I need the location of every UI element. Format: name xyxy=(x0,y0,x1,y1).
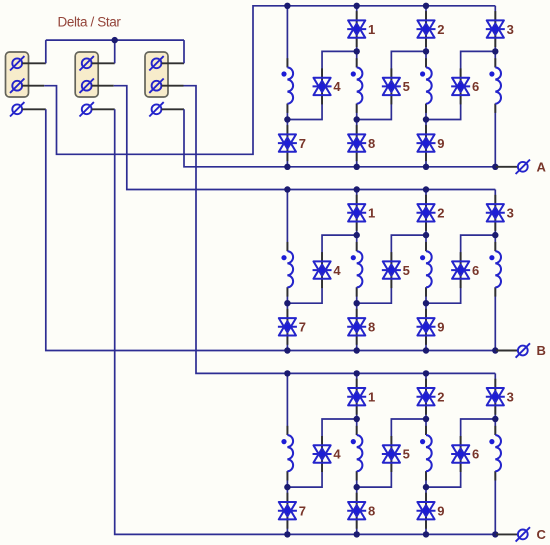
pin thyristor 4 group B xyxy=(321,252,323,288)
wire TR2.1 riser xyxy=(114,40,116,63)
thyristor 7 (group C) xyxy=(278,502,297,519)
wire thyristor 6 branch group C xyxy=(426,419,495,487)
node group A bottom bus col1 xyxy=(284,164,290,170)
phase terminal P2 (loose) xyxy=(80,102,94,116)
label 7 group B xyxy=(299,320,306,335)
label 8 group C xyxy=(368,503,375,518)
node group B junction2 col1 xyxy=(284,300,290,306)
svg-text:2: 2 xyxy=(437,22,444,37)
wire thyristor 4 branch group B xyxy=(287,235,356,303)
label 6 group C xyxy=(472,447,479,462)
wire group B rail 4 upper xyxy=(494,190,496,252)
svg-text:7: 7 xyxy=(299,503,306,518)
thyristor 3 (group B) xyxy=(486,204,505,221)
pin thyristor 3 group C xyxy=(494,379,496,415)
node group C top bus col3 xyxy=(423,370,429,376)
wire group B rail 2 upper xyxy=(356,190,358,252)
node group B junction1 col3 xyxy=(423,232,429,238)
thyristor 4 (group A) xyxy=(313,78,332,95)
inductor L4 (group B) xyxy=(489,251,501,287)
pin inductor L4 group A xyxy=(494,58,496,113)
svg-text:4: 4 xyxy=(333,79,341,94)
inductor L3 (group B) xyxy=(420,251,432,287)
pin TR2.1 xyxy=(92,62,115,64)
pin inductor L1 group C xyxy=(286,426,288,481)
pin inductor L3 group C xyxy=(425,426,427,481)
wire group A rail 1 upper xyxy=(286,6,288,68)
node group C junction2 col2 xyxy=(354,484,360,490)
thyristor 5 (group C) xyxy=(382,445,401,462)
inductor L3 (group C) xyxy=(420,435,432,471)
node group B bottom bus col1 xyxy=(284,347,290,353)
pin thyristor 6 group A xyxy=(460,68,462,104)
pin inductor L1 group B xyxy=(286,242,288,297)
transformer box TR2 xyxy=(75,52,98,97)
svg-text:7: 7 xyxy=(299,136,306,151)
svg-text:7: 7 xyxy=(299,320,306,335)
node group C junction1 col3 xyxy=(423,416,429,422)
svg-text:8: 8 xyxy=(368,320,375,335)
wire TR3.1 riser xyxy=(183,40,185,63)
phase terminal output B xyxy=(516,343,530,357)
node group A junction1 col4 xyxy=(492,48,498,54)
svg-text:9: 9 xyxy=(437,136,444,151)
label 2 group B xyxy=(437,206,444,221)
label A xyxy=(537,160,547,175)
svg-text:9: 9 xyxy=(437,503,444,518)
pin TR2.2 xyxy=(92,85,114,87)
pin thyristor 6 group B xyxy=(460,252,462,288)
wire group B rail 1 lower xyxy=(286,287,288,350)
wire group A rail 3 lower xyxy=(425,104,427,167)
wire group B rail 2 lower xyxy=(356,287,358,350)
thyristor 6 (group B) xyxy=(451,261,470,278)
wire TR3.2 to group C top bus xyxy=(184,86,496,374)
phase terminal TR1 pin 1 xyxy=(10,56,24,70)
pin thyristor 2 group B xyxy=(425,195,427,231)
node group B top bus col1 xyxy=(284,186,290,192)
node group B junction1 col4 xyxy=(492,232,498,238)
label C xyxy=(537,527,547,542)
label 5 group B xyxy=(403,263,410,278)
label 9 group C xyxy=(437,503,444,518)
thyristor 7 (group B) xyxy=(278,318,297,335)
wire group C rail 1 upper xyxy=(286,373,288,435)
label 1 group A xyxy=(368,22,375,37)
label 2 group C xyxy=(437,389,444,404)
svg-text:5: 5 xyxy=(403,79,410,94)
wire TR2.2 to group B top bus xyxy=(114,86,496,190)
svg-text:8: 8 xyxy=(368,503,375,518)
svg-text:6: 6 xyxy=(472,447,479,462)
thyristor 7 (group A) xyxy=(278,134,297,151)
label B xyxy=(537,343,546,358)
thyristor 6 (group C) xyxy=(451,445,470,462)
thyristor 1 (group A) xyxy=(347,20,366,37)
node group B junction2 col3 xyxy=(423,300,429,306)
thyristor 8 (group B) xyxy=(347,318,366,335)
pin thyristor 8 group C xyxy=(356,493,358,529)
thyristor 3 (group C) xyxy=(486,388,505,405)
pin P2 xyxy=(92,108,115,110)
pin thyristor 7 group B xyxy=(286,309,288,345)
svg-text:6: 6 xyxy=(472,263,479,278)
label 3 group C xyxy=(507,389,514,404)
pin TR3.2 xyxy=(161,85,183,87)
wire group A rail 3 upper xyxy=(425,6,427,68)
label 5 group C xyxy=(403,447,410,462)
inductor L1 (group C) xyxy=(281,435,293,471)
node group C junction1 col2 xyxy=(354,416,360,422)
thyristor 9 (group C) xyxy=(417,502,436,519)
node group A junction1 col3 xyxy=(423,48,429,54)
node star bus junction xyxy=(112,37,118,43)
pin inductor L2 group B xyxy=(356,242,358,297)
thyristor 5 (group B) xyxy=(382,261,401,278)
wire group B rail 3 upper xyxy=(425,190,427,252)
node group A junction2 col1 xyxy=(284,116,290,122)
thyristor 6 (group A) xyxy=(451,78,470,95)
wire P3 to group A bottom bus xyxy=(184,109,496,167)
wire group A rail 2 lower xyxy=(356,104,358,167)
node group C top bus col1 xyxy=(284,370,290,376)
node group C bottom bus col3 xyxy=(423,531,429,537)
pin thyristor 6 group C xyxy=(460,436,462,472)
node group C junction1 col4 xyxy=(492,416,498,422)
node group B junction2 col2 xyxy=(354,300,360,306)
wire group C rail 4 lower xyxy=(494,471,496,534)
pin thyristor 2 group A xyxy=(425,11,427,47)
wire thyristor 6 branch group B xyxy=(426,235,495,303)
pin thyristor 9 group C xyxy=(425,493,427,529)
transformer box TR3 xyxy=(145,52,168,97)
wire thyristor 5 branch group A xyxy=(357,51,426,119)
transformer box TR1 xyxy=(6,52,29,97)
pin thyristor 5 group A xyxy=(390,68,392,104)
thyristor 4 (group C) xyxy=(313,445,332,462)
pin thyristor 4 group A xyxy=(321,68,323,104)
svg-text:3: 3 xyxy=(507,389,514,404)
label 6 group B xyxy=(472,263,479,278)
inductor L1 (group B) xyxy=(281,251,293,287)
pin inductor L2 group A xyxy=(356,58,358,113)
phase terminal TR2 pin 1 xyxy=(80,56,94,70)
pin thyristor 7 group A xyxy=(286,125,288,161)
wire group A rail 4 lower xyxy=(494,104,496,167)
node group C junction2 col3 xyxy=(423,484,429,490)
svg-text:1: 1 xyxy=(368,389,375,404)
wire thyristor 4 branch group A xyxy=(287,51,356,119)
wire group C rail 1 lower xyxy=(286,471,288,534)
wire thyristor 6 branch group A xyxy=(426,51,495,119)
node group C bottom bus col2 xyxy=(354,531,360,537)
node group B bottom bus col4 xyxy=(492,347,498,353)
node group B bottom bus col3 xyxy=(423,347,429,353)
node group C top bus col2 xyxy=(354,370,360,376)
label 5 group A xyxy=(403,79,410,94)
wire thyristor 5 branch group B xyxy=(357,235,426,303)
svg-text:A: A xyxy=(537,160,547,175)
inductor L2 (group B) xyxy=(351,251,363,287)
pin inductor L2 group C xyxy=(356,426,358,481)
node group A top bus col3 xyxy=(423,3,429,9)
wire group C rail 3 lower xyxy=(425,471,427,534)
title Delta / Star xyxy=(58,15,122,30)
wire group A rail 2 upper xyxy=(356,6,358,68)
pin thyristor 3 group B xyxy=(494,195,496,231)
node group B junction1 col2 xyxy=(354,232,360,238)
label 4 group C xyxy=(333,447,341,462)
wire group B rail 3 lower xyxy=(425,287,427,350)
svg-text:2: 2 xyxy=(437,206,444,221)
label 1 group C xyxy=(368,389,375,404)
thyristor 9 (group B) xyxy=(417,318,436,335)
wire group C rail 2 lower xyxy=(356,471,358,534)
svg-text:C: C xyxy=(537,527,547,542)
node group A junction1 col2 xyxy=(354,48,360,54)
svg-text:4: 4 xyxy=(333,447,341,462)
label 3 group A xyxy=(507,22,514,37)
pin thyristor 5 group B xyxy=(390,252,392,288)
label 4 group A xyxy=(333,79,341,94)
pin TR3.1 xyxy=(161,62,184,64)
inductor L2 (group A) xyxy=(351,67,363,103)
wire group A rail 4 upper xyxy=(494,6,496,68)
wire P1 to group B bottom bus xyxy=(46,109,496,350)
svg-text:4: 4 xyxy=(333,263,341,278)
wire group C rail 4 upper xyxy=(494,373,496,435)
pin thyristor 4 group C xyxy=(321,436,323,472)
label 9 group A xyxy=(437,136,444,151)
label 1 group B xyxy=(368,206,375,221)
pin inductor L1 group A xyxy=(286,58,288,113)
svg-text:1: 1 xyxy=(368,206,375,221)
svg-text:Delta / Star: Delta / Star xyxy=(58,15,122,30)
svg-text:5: 5 xyxy=(403,447,410,462)
label 3 group B xyxy=(507,206,514,221)
phase terminal output C xyxy=(516,527,530,541)
node group C bottom bus col4 xyxy=(492,531,498,537)
node group A bottom bus col4 xyxy=(492,164,498,170)
label 9 group B xyxy=(437,320,444,335)
thyristor 1 (group C) xyxy=(347,388,366,405)
pin inductor L4 group C xyxy=(494,426,496,481)
node group A top bus col1 xyxy=(284,3,290,9)
pin thyristor 5 group C xyxy=(390,436,392,472)
label 7 group C xyxy=(299,503,306,518)
label 6 group A xyxy=(472,79,479,94)
svg-text:2: 2 xyxy=(437,389,444,404)
wire group C rail 3 upper xyxy=(425,373,427,435)
svg-text:3: 3 xyxy=(507,22,514,37)
phase terminal P1 (loose) xyxy=(10,102,24,116)
svg-text:8: 8 xyxy=(368,136,375,151)
node group C bottom bus col1 xyxy=(284,531,290,537)
wire thyristor 5 branch group C xyxy=(357,419,426,487)
wire TR1.1 riser xyxy=(45,40,47,63)
inductor L4 (group A) xyxy=(489,67,501,103)
pin thyristor 8 group A xyxy=(356,125,358,161)
pin thyristor 2 group C xyxy=(425,379,427,415)
phase terminal P3 (loose) xyxy=(149,102,163,116)
node group B top bus col2 xyxy=(354,186,360,192)
phase terminal TR2 pin 2 xyxy=(80,79,94,93)
inductor L4 (group C) xyxy=(489,435,501,471)
pin thyristor 9 group A xyxy=(425,125,427,161)
label 8 group A xyxy=(368,136,375,151)
pin thyristor 3 group A xyxy=(494,11,496,47)
node group C junction2 col1 xyxy=(284,484,290,490)
node group A bottom bus col3 xyxy=(423,164,429,170)
thyristor 9 (group A) xyxy=(417,134,436,151)
phase terminal TR3 pin 2 xyxy=(149,79,163,93)
pin thyristor 1 group C xyxy=(356,379,358,415)
thyristor 2 (group C) xyxy=(417,388,436,405)
phase terminal output A xyxy=(516,160,530,174)
pin inductor L4 group B xyxy=(494,242,496,297)
thyristor 5 (group A) xyxy=(382,78,401,95)
node group A top bus col2 xyxy=(354,3,360,9)
label 7 group A xyxy=(299,136,306,151)
thyristor 8 (group A) xyxy=(347,134,366,151)
label 4 group B xyxy=(333,263,341,278)
pin TR1.1 xyxy=(22,62,46,64)
node group B top bus col3 xyxy=(423,186,429,192)
label 8 group B xyxy=(368,320,375,335)
node group A junction2 col2 xyxy=(354,116,360,122)
wire star bus xyxy=(46,39,184,41)
pin thyristor 7 group C xyxy=(286,493,288,529)
wire group A rail 1 lower xyxy=(286,104,288,167)
phase terminal TR1 pin 2 xyxy=(10,79,24,93)
inductor L1 (group A) xyxy=(281,67,293,103)
pin inductor L3 group B xyxy=(425,242,427,297)
svg-text:6: 6 xyxy=(472,79,479,94)
wire TR1.2 to group A top bus xyxy=(44,6,495,155)
pin output terminal A xyxy=(496,166,518,168)
node group A bottom bus col2 xyxy=(354,164,360,170)
svg-text:B: B xyxy=(537,343,546,358)
wire thyristor 4 branch group C xyxy=(287,419,356,487)
pin thyristor 1 group B xyxy=(356,195,358,231)
phase terminal TR3 pin 1 xyxy=(149,56,163,70)
svg-text:5: 5 xyxy=(403,263,410,278)
label 2 group A xyxy=(437,22,444,37)
wire P2 to group C bottom bus xyxy=(115,109,496,534)
pin inductor L3 group A xyxy=(425,58,427,113)
pin output terminal B xyxy=(496,350,518,352)
pin output terminal C xyxy=(496,533,518,535)
pin TR1.2 xyxy=(22,85,44,87)
pin thyristor 9 group B xyxy=(425,309,427,345)
svg-text:3: 3 xyxy=(507,206,514,221)
wire group B rail 1 upper xyxy=(286,190,288,252)
node group B bottom bus col2 xyxy=(354,347,360,353)
thyristor 2 (group A) xyxy=(417,20,436,37)
thyristor 2 (group B) xyxy=(417,204,436,221)
pin P3 xyxy=(161,108,184,110)
svg-text:9: 9 xyxy=(437,320,444,335)
wire group C rail 2 upper xyxy=(356,373,358,435)
pin P1 xyxy=(22,108,46,110)
pin thyristor 8 group B xyxy=(356,309,358,345)
thyristor 8 (group C) xyxy=(347,502,366,519)
inductor L3 (group A) xyxy=(420,67,432,103)
thyristor 4 (group B) xyxy=(313,261,332,278)
thyristor 3 (group A) xyxy=(486,20,505,37)
wire group B rail 4 lower xyxy=(494,287,496,350)
pin thyristor 1 group A xyxy=(356,11,358,47)
inductor L2 (group C) xyxy=(351,435,363,471)
node group A junction2 col3 xyxy=(423,116,429,122)
thyristor 1 (group B) xyxy=(347,204,366,221)
svg-text:1: 1 xyxy=(368,22,375,37)
